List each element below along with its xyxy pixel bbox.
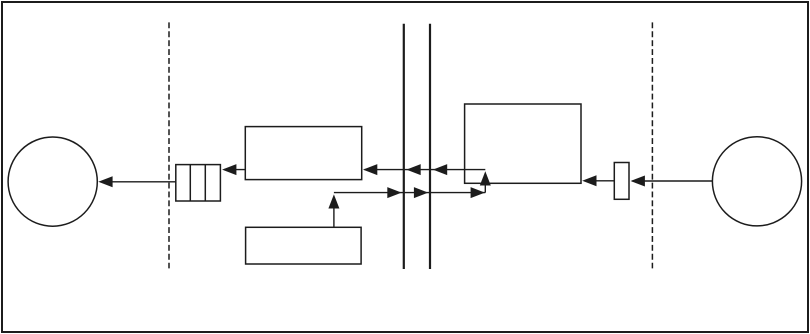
wire: upper return line across network to upper-left box: [363, 164, 485, 175]
network bus line 1: [403, 24, 405, 269]
wire: interface rect to right box: [582, 175, 614, 186]
wire: up stub junction into right box bottom: [480, 171, 491, 192]
wire: lower-left box up to forward line: [328, 194, 339, 227]
queue box (3 cells): [176, 165, 221, 201]
boundary line left (dashed): [168, 22, 170, 268]
network bus line 2: [429, 24, 431, 269]
wire: right circle to interface rect: [631, 176, 713, 187]
upper-left process box: [245, 127, 361, 180]
wire: lower forward line across network: [334, 187, 485, 198]
wire: queue box to left circle: [98, 176, 176, 187]
boundary line right (dashed): [651, 22, 653, 268]
wire: upper-left box to queue box: [222, 164, 245, 175]
right process box: [465, 104, 581, 183]
lower-left process box: [246, 227, 362, 264]
right application circle: [712, 137, 801, 226]
left application circle: [8, 137, 97, 226]
right interface rect: [614, 163, 629, 200]
